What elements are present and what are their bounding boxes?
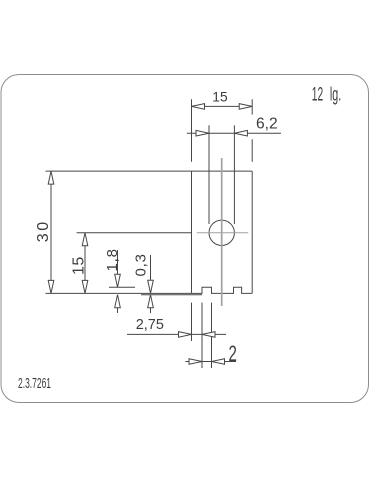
centrelines (gray) [197, 158, 248, 306]
svg-text:15: 15 [212, 89, 228, 104]
arrow 1,8 lower (points up) [115, 295, 121, 308]
arrow 2,75 left (points right) [179, 332, 192, 338]
dimension line 0,3 [150, 255, 152, 293]
arrow 2 left (points right) [189, 359, 202, 365]
svg-text:lg.: lg. [330, 85, 341, 106]
dimension line left 15 [84, 233, 86, 294]
arrow 15 bottom (points down) [82, 280, 88, 293]
dimension line 1,8 [117, 250, 119, 287]
svg-text:30: 30 [35, 219, 52, 242]
slot left edge / extension for 6,2 dim [208, 125, 210, 224]
part outline: right edge [251, 171, 253, 293]
arrow 6,2 left (points right) [196, 130, 209, 136]
dimension line 30 [50, 171, 52, 293]
arrow 0,3 lower (points up) [148, 295, 154, 308]
dimension line top 15 [192, 105, 253, 107]
vertical centreline of slot/hole [221, 158, 223, 306]
extension line right for top 15 dim (broken) [251, 99, 253, 114]
part outline: bottom edge with two notches [192, 287, 253, 293]
dimension line 6,2 [187, 132, 281, 134]
extension lines below part for 2,75 and 2 dims [191, 303, 193, 341]
arrow 6,2 right (points left) [234, 130, 247, 136]
svg-text:2: 2 [229, 341, 237, 366]
dimension line 2 [185, 361, 236, 363]
extension line: circle centre level extended left for 15 dim [77, 232, 192, 234]
part outline: top edge extended left as extension line for 30 dim [46, 170, 253, 172]
arrow top15 left (points left) [192, 104, 205, 110]
horizontal centreline of hole [197, 232, 248, 234]
arrow 1,8 upper (points down) [115, 274, 121, 287]
svg-text:12: 12 [312, 85, 323, 106]
svg-text:6,2: 6,2 [256, 115, 278, 132]
svg-text:0,3: 0,3 [133, 253, 150, 276]
extension line: bottom edge extended left for 30 and 15 dims [46, 292, 192, 294]
arrow 15 top (points up) [82, 233, 88, 246]
arrow 2 right (points left) [212, 359, 225, 365]
hole circle [209, 220, 234, 245]
arrow 30 top (points up) [48, 171, 54, 184]
svg-text:15: 15 [71, 256, 88, 275]
arrow 30 bottom (points down) [48, 280, 54, 293]
arrow 0,3 upper (points down) [148, 280, 154, 293]
extension line: notch top level reference for 1,8 dim [109, 286, 135, 288]
drawing sheet frame (rounded border) [1, 75, 369, 403]
part outline: left edge [191, 171, 193, 293]
dimension line 2,75 [127, 333, 226, 335]
arrow 2,75 right (points left) [202, 332, 215, 338]
slot right edge / extension for 6,2 dim [233, 125, 235, 224]
extension line left for top 15 dim [191, 99, 193, 162]
dimension arrowheads (open triangles) [48, 104, 252, 365]
bottom lip line 0.3 below bottom edge [141, 294, 202, 296]
svg-text:2,75: 2,75 [136, 317, 164, 333]
arrow top15 right (points right) [239, 104, 252, 110]
svg-text:2.3.7261: 2.3.7261 [18, 376, 51, 392]
svg-text:1,8: 1,8 [104, 248, 121, 271]
